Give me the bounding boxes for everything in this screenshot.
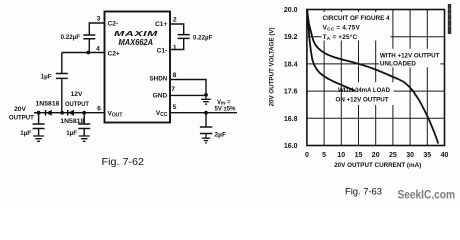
svg-text:0: 0 [305,152,309,159]
svg-text:17.6: 17.6 [284,89,298,96]
curve with 34mA load on +12V output [307,10,382,102]
svg-text:6: 6 [97,105,101,112]
op-amp U1 MAX662A IC body [105,12,171,123]
wire VCC node down to 2uF cap [205,113,207,127]
svg-text:UNLOADED: UNLOADED [380,61,416,68]
capacitor 1uF coupling plates [56,74,68,79]
svg-text:5: 5 [173,104,177,111]
svg-text:19.2: 19.2 [284,34,298,41]
wire capacitor C1 to pin1 C1- [170,38,184,49]
ground symbol at SHDN/GND [201,95,210,104]
svg-text:20.0: 20.0 [284,7,298,14]
svg-text:SeekIC.com: SeekIC.com [398,187,456,201]
svg-text:20V OUTPUT CURRENT (mA): 20V OUTPUT CURRENT (mA) [334,162,421,169]
svg-text:Fig. 7-63: Fig. 7-63 [345,186,382,196]
svg-text:WITH +12V OUTPUT: WITH +12V OUTPUT [380,52,440,59]
svg-text:3: 3 [97,16,101,23]
svg-text:2: 2 [173,16,177,23]
white patch under circuit conditions text [322,12,391,41]
output rail wire to pin6 VOUT [34,112,104,114]
svg-text:4: 4 [96,45,100,52]
graph grid vertical lines [324,10,427,146]
svg-text:25: 25 [389,152,397,159]
svg-text:20V: 20V [14,106,26,113]
svg-text:35: 35 [423,152,431,159]
wire capacitor C2 to pin4 line [88,39,90,53]
svg-text:0.22µF: 0.22µF [193,34,213,41]
ground symbol VOUT cap [79,136,90,141]
svg-text:30: 30 [406,152,414,159]
svg-text:VCC: VCC [156,110,168,118]
svg-text:CIRCUIT OF FIGURE 4: CIRCUIT OF FIGURE 4 [323,15,390,22]
capacitor 1uF at VOUT node [78,113,90,136]
svg-text:ON +12V OUTPUT: ON +12V OUTPUT [336,97,389,104]
svg-text:VIN =: VIN = [217,100,231,106]
svg-text:GND: GND [153,92,168,99]
wire pin5 VCC to VIN [170,112,237,114]
svg-text:1µF: 1µF [41,73,52,80]
svg-text:7: 7 [171,86,175,93]
svg-text:OUTPUT: OUTPUT [65,101,89,108]
junction dot VCC/2uF [204,111,208,115]
white patch under 34mA label hiding curve [356,82,394,105]
wire riser C2+ down to 1uF cap [61,53,63,74]
ground symbol 20V cap [33,136,44,141]
junction dot VOUT node [82,111,86,115]
svg-text:MAX662A: MAX662A [119,38,154,47]
svg-text:WITH 34mA LOAD: WITH 34mA LOAD [338,87,390,94]
svg-text:20: 20 [372,152,380,159]
svg-text:8: 8 [173,72,177,79]
white patch under unloaded label [379,49,441,68]
wire pin4 C2+ [62,52,104,54]
side bar figure marker [448,4,451,34]
wire pin8 SHDN to GND junction [170,80,206,95]
curve with +12V output unloaded [307,10,438,144]
svg-text:1µF: 1µF [66,130,77,137]
graph grid horizontal lines [307,37,445,119]
svg-text:C2-: C2- [108,20,119,27]
svg-text:OUTPUT: OUTPUT [9,114,34,121]
wire 1uF cap down to 12V node [61,78,63,112]
capacitor 2uF plates [200,127,212,134]
svg-text:15: 15 [355,152,363,159]
ground symbol under 2uF [202,134,210,143]
wire pin2 C1+ to capacitor C1 [170,24,184,35]
svg-text:16.8: 16.8 [284,116,298,123]
svg-text:5V ±5%: 5V ±5% [215,107,237,113]
svg-text:1N5818: 1N5818 [36,101,61,107]
capacitor C2 0.22uF plates [83,35,95,39]
svg-text:C2+: C2+ [108,50,120,57]
svg-text:1: 1 [173,44,177,51]
wire pin3 C2- to capacitor C2 [89,23,104,35]
svg-text:C1+: C1+ [155,21,167,28]
junction dot 20V node [37,111,41,115]
svg-text:12V: 12V [71,91,83,98]
capacitor 1uF at 20V node [33,113,45,136]
svg-text:2µF: 2µF [215,132,227,139]
junction dot pin4/C2 [86,51,90,55]
svg-text:16.0: 16.0 [284,143,298,150]
wire pin7 GND [170,94,206,96]
svg-text:1µF: 1µF [20,130,31,137]
diode D1 1N5818 [45,110,47,116]
svg-text:0.22µF: 0.22µF [61,34,81,41]
svg-text:20V OUTPUT VOLTAGE (V): 20V OUTPUT VOLTAGE (V) [268,27,275,106]
svg-text:Fig. 7-62: Fig. 7-62 [102,157,145,168]
junction dot 12V node [60,111,64,115]
svg-text:18.4: 18.4 [284,61,298,68]
svg-text:VOUT: VOUT [108,110,123,118]
svg-text:10: 10 [337,152,345,159]
svg-text:C1-: C1- [157,47,168,54]
capacitor C1 0.22uF plates [178,35,190,39]
diode D2 1N5818 [67,110,69,116]
junction dot SHDN/GND [204,93,208,97]
graph plot border [307,10,445,146]
svg-text:5: 5 [322,152,326,159]
svg-text:40: 40 [441,152,449,159]
svg-text:SHDN: SHDN [149,76,167,83]
